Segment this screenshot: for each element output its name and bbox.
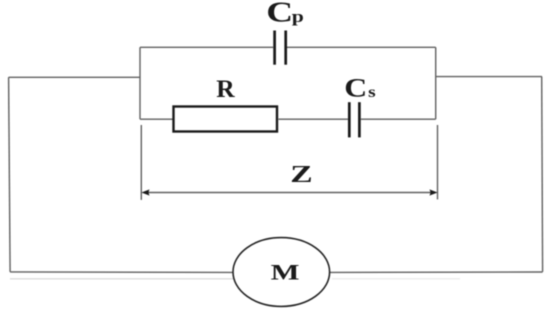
- svg-text:C: C: [344, 74, 367, 103]
- svg-text:R: R: [216, 74, 235, 103]
- svg-text:Z: Z: [290, 162, 312, 188]
- svg-text:s: s: [368, 83, 376, 101]
- svg-text:M: M: [271, 259, 300, 284]
- svg-text:C: C: [266, 0, 293, 28]
- svg-text:p: p: [292, 8, 304, 26]
